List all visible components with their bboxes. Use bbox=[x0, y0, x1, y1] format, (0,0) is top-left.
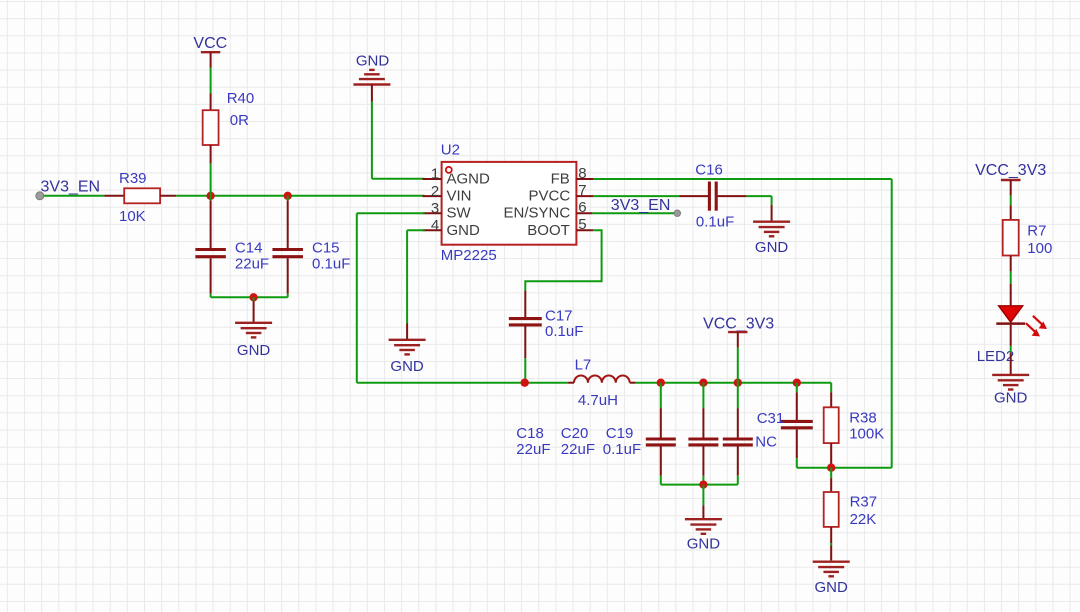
label R37 bbox=[850, 493, 878, 510]
label 100 bbox=[1027, 240, 1052, 257]
resistor R7 bbox=[1003, 205, 1019, 271]
svg-text:GND: GND bbox=[390, 358, 424, 375]
junction C20 node bbox=[699, 379, 707, 387]
svg-text:EN/SYNC: EN/SYNC bbox=[504, 205, 571, 222]
label 100K bbox=[849, 425, 884, 442]
svg-text:R37: R37 bbox=[850, 493, 878, 510]
svg-text:R38: R38 bbox=[849, 409, 877, 426]
wire 3V3_EN dot to R39 bbox=[44, 195, 105, 197]
label 0.1uF (C16) bbox=[696, 213, 734, 230]
power flag VCC_3V3 (right) bbox=[975, 162, 1046, 195]
svg-text:BOOT: BOOT bbox=[527, 222, 570, 239]
svg-text:GND: GND bbox=[237, 342, 271, 359]
svg-text:0.1uF: 0.1uF bbox=[312, 256, 350, 273]
svg-text:GND: GND bbox=[994, 390, 1028, 407]
inductor L7 bbox=[568, 376, 636, 383]
svg-text:0.1uF: 0.1uF bbox=[545, 323, 583, 340]
ground below LED2 bbox=[992, 375, 1029, 390]
wire C31 to FB node bbox=[796, 458, 798, 468]
node pin6 terminal dot bbox=[674, 210, 680, 216]
wire SW rail left of L7 bbox=[357, 382, 568, 384]
label 0R bbox=[230, 112, 249, 129]
svg-text:10K: 10K bbox=[119, 208, 146, 225]
junction output caps gnd node bbox=[699, 480, 707, 488]
ground below pin4 bbox=[389, 324, 426, 355]
pin number 3 bbox=[431, 200, 439, 217]
svg-text:4: 4 bbox=[431, 217, 439, 234]
label C18 bbox=[516, 425, 544, 442]
label C20 bbox=[561, 425, 589, 442]
ground above U2 pin1 (inverted) bbox=[353, 70, 390, 102]
svg-text:2: 2 bbox=[431, 183, 439, 200]
label GND (R37) bbox=[815, 579, 849, 596]
label C15 bbox=[312, 239, 340, 256]
pin 1 lead AGND bbox=[423, 178, 442, 180]
label GND (pin4) bbox=[390, 358, 424, 375]
svg-text:C16: C16 bbox=[695, 161, 723, 178]
svg-text:VCC: VCC bbox=[193, 35, 227, 52]
svg-text:SW: SW bbox=[447, 205, 472, 222]
pin name PVCC bbox=[529, 188, 571, 205]
svg-text:LED2: LED2 bbox=[977, 348, 1015, 365]
pin name EN/SYNC bbox=[504, 205, 571, 222]
pin name SW bbox=[447, 205, 472, 222]
svg-text:8: 8 bbox=[578, 165, 586, 182]
wire pin7 to C16 bbox=[593, 195, 679, 197]
label U2 bbox=[441, 141, 460, 158]
svg-text:NC: NC bbox=[755, 434, 777, 451]
wire pin4 to ground bbox=[407, 230, 425, 323]
wire R7 to LED2 bbox=[1010, 271, 1012, 305]
svg-text:U2: U2 bbox=[441, 141, 460, 158]
resistor R39 bbox=[104, 188, 176, 203]
svg-text:R40: R40 bbox=[227, 90, 255, 107]
power flag VCC bbox=[193, 35, 227, 67]
label C17 bbox=[545, 307, 573, 324]
ground below C14/C15 bbox=[235, 297, 272, 337]
wire VCC_3V3 to R7 bbox=[1010, 195, 1012, 205]
label GND (top) bbox=[356, 53, 390, 70]
label 10K bbox=[119, 208, 146, 225]
junction C17 node bbox=[521, 379, 529, 387]
label NC bbox=[755, 434, 777, 451]
label LED2 bbox=[977, 348, 1015, 365]
label C19 bbox=[606, 425, 634, 442]
svg-text:22K: 22K bbox=[850, 511, 877, 528]
pin number 8 bbox=[578, 165, 586, 182]
ground right of C16 bbox=[753, 205, 790, 236]
pin name AGND bbox=[447, 171, 491, 188]
op-amp U2 MP2225 body bbox=[442, 162, 577, 245]
label 0.1uF (C19) bbox=[603, 441, 641, 458]
pin number 2 bbox=[431, 183, 439, 200]
svg-text:C17: C17 bbox=[545, 307, 573, 324]
svg-text:GND: GND bbox=[815, 579, 849, 596]
resistor R38 bbox=[824, 383, 839, 468]
svg-text:5: 5 bbox=[578, 216, 586, 233]
label 22K bbox=[850, 511, 877, 528]
svg-text:C20: C20 bbox=[561, 425, 589, 442]
svg-text:22uF: 22uF bbox=[516, 441, 550, 458]
label 22uF (C18) bbox=[516, 441, 550, 458]
resistor R37 bbox=[824, 468, 839, 561]
junction at R40/C14 node bbox=[206, 192, 214, 200]
pin 7 lead PVCC bbox=[576, 195, 593, 197]
svg-text:FB: FB bbox=[551, 171, 570, 188]
wire LED2 to ground bbox=[1010, 325, 1012, 374]
pin 4 lead GND bbox=[423, 229, 442, 231]
pin name BOOT bbox=[527, 222, 570, 239]
wire R39 to U2 pin2 bbox=[176, 195, 424, 197]
svg-text:PVCC: PVCC bbox=[529, 188, 571, 205]
svg-text:GND: GND bbox=[356, 53, 390, 70]
ground below output caps bbox=[685, 485, 722, 534]
wire R40 to junction bbox=[210, 163, 212, 195]
label GND (output caps) bbox=[687, 535, 721, 552]
svg-text:VCC_3V3: VCC_3V3 bbox=[703, 315, 774, 332]
capacitor C17 bbox=[509, 291, 542, 359]
label R40 bbox=[227, 90, 255, 107]
pin number 4 bbox=[431, 217, 439, 234]
capacitor C18 bbox=[646, 383, 676, 485]
pin name FB bbox=[551, 171, 570, 188]
svg-text:GND: GND bbox=[687, 535, 721, 552]
capacitor C20 bbox=[688, 383, 718, 485]
svg-text:3: 3 bbox=[431, 200, 439, 217]
svg-text:1: 1 bbox=[431, 166, 439, 183]
pin name GND bbox=[447, 222, 481, 239]
pin number 1 bbox=[431, 166, 439, 183]
svg-text:22uF: 22uF bbox=[235, 256, 269, 273]
junction FB divider node bbox=[827, 464, 835, 472]
LED LED2 bbox=[996, 306, 1025, 324]
label GND (LED2) bbox=[994, 390, 1028, 407]
svg-text:0.1uF: 0.1uF bbox=[696, 213, 734, 230]
wire pin6 EN/SYNC bbox=[592, 212, 674, 214]
resistor R40 bbox=[203, 94, 219, 164]
label 0.1uF (C15) bbox=[312, 256, 350, 273]
label GND (C16) bbox=[755, 239, 789, 256]
junction C18 node bbox=[657, 379, 665, 387]
svg-text:C18: C18 bbox=[516, 425, 544, 442]
svg-text:AGND: AGND bbox=[447, 171, 491, 188]
pin number 5 bbox=[578, 216, 586, 233]
svg-text:22uF: 22uF bbox=[561, 441, 595, 458]
svg-text:7: 7 bbox=[578, 182, 586, 199]
LED2 light arrows bbox=[1026, 316, 1047, 337]
pin 3 lead SW bbox=[423, 212, 442, 214]
net label 3V3_EN (pin6) bbox=[611, 197, 671, 214]
capacitor C16 bbox=[679, 182, 746, 211]
svg-text:MP2225: MP2225 bbox=[441, 247, 497, 264]
wire BOOT to C17 bbox=[525, 230, 601, 290]
svg-text:0R: 0R bbox=[230, 112, 249, 129]
capacitor C31 bbox=[781, 383, 813, 459]
wire C17 to rail bbox=[524, 358, 526, 383]
svg-text:C14: C14 bbox=[235, 239, 263, 256]
pin number 7 bbox=[578, 182, 586, 199]
svg-text:R7: R7 bbox=[1027, 223, 1046, 240]
pin name VIN bbox=[447, 188, 472, 205]
pin 5 lead BOOT bbox=[576, 229, 593, 231]
svg-text:GND: GND bbox=[447, 222, 481, 239]
wire VCC to R40 bbox=[210, 68, 212, 94]
label 22uF (C14) bbox=[235, 256, 269, 273]
svg-text:VIN: VIN bbox=[447, 188, 472, 205]
svg-text:100K: 100K bbox=[849, 425, 884, 442]
capacitor C19 bbox=[723, 383, 753, 485]
wire C14-C15 bottoms bbox=[211, 296, 288, 298]
label GND (C14/C15) bbox=[237, 342, 271, 359]
label R7 bbox=[1027, 223, 1046, 240]
wire FB net bbox=[593, 179, 891, 468]
junction at C15 node bbox=[284, 192, 292, 200]
svg-text:100: 100 bbox=[1027, 240, 1052, 257]
svg-text:3V3_EN: 3V3_EN bbox=[41, 179, 101, 196]
label C16 bbox=[695, 161, 723, 178]
capacitor C14 bbox=[195, 196, 226, 297]
node 3V3_EN terminal dot bbox=[36, 192, 44, 200]
label R38 bbox=[849, 409, 877, 426]
label 0.1uF (C17) bbox=[545, 323, 583, 340]
label 4.7uH bbox=[578, 392, 618, 409]
svg-text:0.1uF: 0.1uF bbox=[603, 441, 641, 458]
net label 3V3_EN (left) bbox=[41, 179, 101, 196]
svg-text:R39: R39 bbox=[119, 170, 147, 187]
label MP2225 bbox=[441, 247, 497, 264]
pin 8 lead FB bbox=[576, 178, 593, 180]
label R39 bbox=[119, 170, 147, 187]
wire VCC_3V3 to rail bbox=[737, 348, 739, 383]
wire output caps bottoms bbox=[661, 484, 738, 486]
label C14 bbox=[235, 239, 263, 256]
svg-text:3V3_EN: 3V3_EN bbox=[611, 197, 671, 214]
junction C19/VCC_3V3 node bbox=[734, 379, 742, 387]
label L7 bbox=[575, 356, 592, 373]
pin 2 lead VIN bbox=[423, 195, 442, 197]
pin 1 marker circle bbox=[446, 167, 452, 173]
svg-text:C15: C15 bbox=[312, 239, 340, 256]
wire C16 to ground bbox=[746, 196, 771, 205]
svg-text:GND: GND bbox=[755, 239, 789, 256]
svg-text:L7: L7 bbox=[575, 356, 592, 373]
label 22uF (C20) bbox=[561, 441, 595, 458]
label C31 bbox=[757, 410, 785, 427]
pin number 6 bbox=[578, 199, 586, 216]
svg-text:4.7uH: 4.7uH bbox=[578, 392, 618, 409]
svg-text:VCC_3V3: VCC_3V3 bbox=[975, 162, 1046, 179]
wire top GND to pin1 bbox=[372, 102, 425, 179]
wire SW pin3 to rail bbox=[357, 213, 425, 383]
svg-text:C19: C19 bbox=[606, 425, 634, 442]
svg-text:6: 6 bbox=[578, 199, 586, 216]
ground below R37 bbox=[813, 562, 850, 577]
wire SW rail right of L7 bbox=[636, 382, 832, 384]
junction C14/C15 gnd node bbox=[249, 293, 257, 301]
svg-text:C31: C31 bbox=[757, 410, 785, 427]
capacitor C15 bbox=[272, 196, 303, 297]
junction C31 node bbox=[793, 379, 801, 387]
power flag VCC_3V3 (mid) bbox=[703, 315, 774, 347]
pin 6 lead EN/SYNC bbox=[576, 212, 592, 214]
